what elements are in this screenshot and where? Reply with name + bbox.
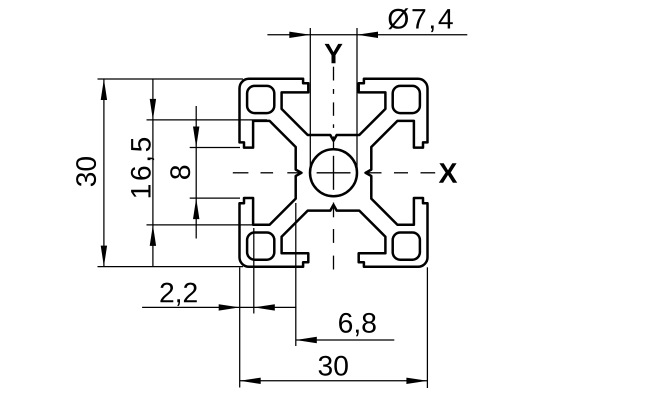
horizontal centerline X axis xyxy=(233,172,435,174)
dimension O7,4 extension lines (hole tangents) xyxy=(310,28,357,171)
profile outer contour 30x30 extrusion xyxy=(240,79,428,267)
dimension 2,2 line xyxy=(142,306,296,308)
dimension O7,4 line xyxy=(267,34,467,36)
dimension text 8 (rotated) xyxy=(170,166,190,179)
dimension 8 arrows (outside) xyxy=(193,127,199,220)
dimension 30 bottom line xyxy=(240,380,428,382)
hole crosshair xyxy=(317,156,351,190)
vertical centerline Y axis xyxy=(333,67,335,270)
corner screw-channel cavity bottom-right xyxy=(393,233,420,260)
dimension 30 left line xyxy=(103,79,105,267)
corner screw-channel cavity top-right xyxy=(393,86,420,113)
dimension O7,4 arrows xyxy=(289,32,378,38)
central bore hole diameter 7,4 xyxy=(310,149,357,196)
dimension 30 bottom arrows xyxy=(240,378,428,384)
dimension 8 line xyxy=(195,106,197,239)
dimension text 6,8 xyxy=(339,313,376,336)
dimension 6,8 arrow xyxy=(296,337,317,343)
dimension 30 left arrows xyxy=(101,79,107,267)
dimension 30 bottom extension line right xyxy=(426,267,428,388)
corner screw-channel cavity top-left xyxy=(247,86,274,113)
dimension text 30 bottom xyxy=(319,356,348,376)
corner screw-channel cavity bottom-left xyxy=(247,233,274,260)
dimension text 16,5 (rotated) xyxy=(131,138,154,197)
dimension 16,5 arrows (outside) xyxy=(150,99,156,246)
axis label X xyxy=(439,163,457,182)
dimension text 30 left (rotated) xyxy=(76,157,96,186)
dimension text O7,4 xyxy=(388,8,452,32)
dimension 30 left extension lines xyxy=(98,79,244,267)
dimension 2,2 arrows (outside) xyxy=(219,304,275,310)
axis label Y xyxy=(325,44,343,63)
dimension 16,5 extension lines xyxy=(147,120,268,225)
dimension 2,2 extension lines xyxy=(240,228,254,388)
dimension text 2,2 xyxy=(160,283,196,306)
dimension 16,5 line xyxy=(152,79,154,267)
dimension 8 extension lines xyxy=(190,148,240,199)
dimension 6,8 extension line xyxy=(295,203,297,346)
dimension 6,8 line xyxy=(296,339,395,341)
